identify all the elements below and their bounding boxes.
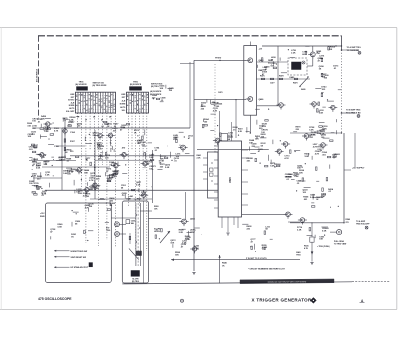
svg-text:100: 100 <box>204 121 208 123</box>
svg-text:P IS SET TO P-VOLTS: P IS SET TO P-VOLTS <box>246 258 267 260</box>
wire y62 stub <box>180 63 194 65</box>
level switch contacts <box>136 214 141 255</box>
output label upper <box>347 46 362 52</box>
level box right labels <box>154 206 161 233</box>
wire y160 stub <box>56 160 76 162</box>
svg-text:.001: .001 <box>31 134 36 136</box>
resistor R483 <box>321 93 323 96</box>
IC U520 block <box>218 141 241 217</box>
svg-text:68: 68 <box>121 187 124 189</box>
svg-text:.001: .001 <box>246 161 251 163</box>
svg-text:4.7K: 4.7K <box>322 128 327 131</box>
border left vertical label <box>36 68 39 82</box>
U520 right network cluster <box>246 136 283 168</box>
svg-text:EXT: EXT <box>122 97 126 99</box>
svg-text:.001: .001 <box>303 199 308 201</box>
wire y106 link <box>257 105 278 107</box>
svg-text:2.2K: 2.2K <box>36 165 41 167</box>
slope comparator Q135 cluster <box>96 153 128 181</box>
title diamond symbol <box>311 298 317 304</box>
push trig note <box>317 246 330 248</box>
switch table S35 side note <box>151 84 162 89</box>
svg-text:5.6K: 5.6K <box>136 184 141 186</box>
U520 bottom pins <box>222 217 238 232</box>
svg-text:10K: 10K <box>154 209 158 211</box>
model note dark strip <box>240 279 334 284</box>
svg-text:15K: 15K <box>270 66 274 68</box>
output flag upper <box>358 51 361 54</box>
svg-text:68: 68 <box>110 205 113 207</box>
svg-text:220: 220 <box>105 158 109 160</box>
resistor R482 <box>321 73 323 76</box>
svg-text:4.7K: 4.7K <box>32 175 37 178</box>
Q505 labels <box>190 219 197 235</box>
svg-text:A+B: A+B <box>71 101 75 104</box>
output stage Q535 <box>298 218 307 225</box>
level box wiper diagonal <box>129 248 139 259</box>
man trig label <box>296 251 301 257</box>
wire x355 vertical <box>354 133 356 167</box>
border top dashed <box>38 35 342 37</box>
relay indicator <box>302 61 305 64</box>
transistor Q470 <box>246 58 253 63</box>
svg-text:100: 100 <box>77 126 81 128</box>
switch table S30 side note <box>93 83 108 88</box>
wire y160 mid <box>95 159 152 161</box>
svg-text:* CIRCUIT NUMBERS SEE PARTS LI: * CIRCUIT NUMBERS SEE PARTS LIST <box>248 267 286 270</box>
svg-text:15K: 15K <box>97 145 101 147</box>
svg-text:(B) SOURCE: (B) SOURCE <box>130 84 142 86</box>
svg-text:.01: .01 <box>174 161 178 163</box>
svg-text:C470: C470 <box>218 91 223 94</box>
wire mid rail x95 <box>94 130 96 199</box>
slope comparator Q130 cluster <box>58 150 96 176</box>
svg-text:TRIG HOLDOFF: TRIG HOLDOFF <box>356 224 370 226</box>
svg-text:3R: 3R <box>93 117 96 119</box>
wire Q480 collector <box>312 46 314 52</box>
pull ring label <box>334 241 347 246</box>
transistor Q460 <box>178 145 187 152</box>
svg-text:10K: 10K <box>262 249 266 251</box>
right mid cluster2 <box>255 109 269 139</box>
transistor Q475 <box>246 97 253 102</box>
svg-text:4.7K: 4.7K <box>85 207 90 210</box>
svg-text:220: 220 <box>296 129 300 131</box>
svg-text:R478: R478 <box>279 75 284 78</box>
output flag holdoff <box>365 226 368 229</box>
svg-text:.001: .001 <box>309 137 314 139</box>
svg-text:10K: 10K <box>304 156 308 158</box>
output bias cluster <box>297 226 329 241</box>
slope switch contact <box>299 76 308 91</box>
switch table S30 header label <box>75 82 87 87</box>
svg-text:A+B: A+B <box>122 99 126 102</box>
svg-text:330: 330 <box>63 120 67 122</box>
TP470 label <box>215 56 223 94</box>
wire trigger bus y190 <box>45 189 218 191</box>
wire aux bus y199 <box>90 198 152 200</box>
svg-text:330: 330 <box>41 157 45 159</box>
trigger preamp Q110 <box>96 133 105 140</box>
svg-text:1K: 1K <box>222 265 225 267</box>
source label lines <box>150 90 162 96</box>
svg-text:10K: 10K <box>41 119 45 121</box>
svg-text:100: 100 <box>169 90 173 92</box>
svg-text:1K: 1K <box>134 133 137 135</box>
input coupling cluster <box>29 172 54 197</box>
relay label <box>290 76 296 79</box>
wire U470 right mid <box>257 61 288 63</box>
bottom border line <box>122 281 390 284</box>
U470 labels <box>259 49 265 102</box>
wire x236 drop <box>235 99 236 138</box>
svg-text:2.2K: 2.2K <box>262 247 267 249</box>
ground under U520 <box>226 233 229 235</box>
svg-text:2.2K: 2.2K <box>297 230 302 232</box>
svg-text:2.2K: 2.2K <box>194 248 199 250</box>
svg-text:100: 100 <box>29 183 33 185</box>
U520 top pin cluster <box>220 127 250 141</box>
right column cluster <box>315 46 341 136</box>
svg-text:15K: 15K <box>84 172 88 174</box>
svg-text:4.7K: 4.7K <box>315 153 320 156</box>
svg-text:1K: 1K <box>107 126 110 128</box>
svg-text:HF STAB ADJ POT: HF STAB ADJ POT <box>71 266 89 269</box>
wire y260 arrowhead <box>171 259 174 261</box>
svg-text:R479: R479 <box>293 82 298 85</box>
svg-text:MAN: MAN <box>296 251 301 254</box>
svg-text:TRIG: TRIG <box>106 230 111 232</box>
source select cluster A <box>152 85 175 102</box>
amplifier block U470 <box>244 46 257 116</box>
+15V arrow label <box>344 168 365 171</box>
svg-text:.01: .01 <box>85 160 89 162</box>
footer reference circle <box>181 299 184 302</box>
level switch actuator box <box>131 271 140 277</box>
svg-text:10K: 10K <box>319 239 323 241</box>
wire right bus vertical solid <box>341 36 343 50</box>
input connector J10 cluster <box>27 115 54 140</box>
wire left bus B <box>29 160 62 162</box>
level actuator label <box>132 278 140 283</box>
page right edge <box>396 28 398 310</box>
transistor Q480 <box>308 52 315 59</box>
coupling network cluster <box>258 57 287 76</box>
svg-text:5.6K: 5.6K <box>309 129 314 131</box>
input chain resistor R106 <box>64 147 66 150</box>
wire to output lower <box>342 112 356 114</box>
svg-text:.01: .01 <box>286 179 290 181</box>
emitter follower Q150 cluster <box>141 146 168 171</box>
svg-text:R476: R476 <box>260 75 265 78</box>
slope amp Q515 <box>302 134 311 141</box>
enclosure box trig mode switch <box>46 203 112 283</box>
narrow block U460 <box>208 152 219 198</box>
svg-text:5.6K: 5.6K <box>322 230 327 232</box>
lower center cluster <box>242 224 273 252</box>
revision mark <box>360 299 365 303</box>
switch S35 row labels <box>120 94 126 112</box>
wire y133 bus <box>290 132 342 133</box>
svg-text:+5V: +5V <box>259 49 263 51</box>
title X TRIGGER GENERATOR <box>251 297 311 302</box>
switch callout arrows <box>54 250 89 269</box>
svg-text:68: 68 <box>228 139 231 141</box>
inner wall line <box>143 201 145 283</box>
svg-text:68: 68 <box>265 229 268 231</box>
svg-text:10K: 10K <box>299 173 303 175</box>
svg-text:NORM: NORM <box>120 104 126 106</box>
svg-text:2.2K: 2.2K <box>179 232 184 234</box>
input chain resistor R105 <box>64 139 66 142</box>
switch table S35 header box <box>130 87 142 91</box>
svg-text:2.2K: 2.2K <box>141 195 146 197</box>
svg-text:4.7K: 4.7K <box>69 118 74 121</box>
svg-text:LEVEL: LEVEL <box>154 231 161 233</box>
svg-text:+ TRIG (PUSH): + TRIG (PUSH) <box>317 246 330 248</box>
wire to output upper <box>342 49 360 51</box>
wire left bus C <box>33 177 62 179</box>
svg-text:TO J-TRACE BD: TO J-TRACE BD <box>346 111 361 114</box>
node top right <box>341 45 342 46</box>
svg-text:.01: .01 <box>37 122 41 124</box>
svg-text:AUTO: AUTO <box>120 106 126 109</box>
svg-text:C477: C477 <box>270 82 275 85</box>
dotted feed x215 <box>214 64 216 152</box>
svg-text:4.7K: 4.7K <box>83 194 88 197</box>
Q460 label stack <box>159 152 190 169</box>
Q505 collector wire <box>185 192 187 219</box>
svg-text:Q486: Q486 <box>259 98 265 101</box>
svg-text:100: 100 <box>324 78 328 80</box>
switch S30 wafer wiring dashed drops <box>78 113 116 248</box>
wire into level box <box>111 211 152 218</box>
asterisk note <box>248 267 286 270</box>
border left dashed <box>38 36 40 118</box>
svg-text:15K: 15K <box>76 192 80 194</box>
svg-text:(A) SOURCE: (A) SOURCE <box>150 90 162 93</box>
svg-text:15K: 15K <box>297 168 301 170</box>
wire coupling bus y167 <box>42 166 110 168</box>
P note <box>246 258 267 260</box>
U470 bottom feed <box>250 115 251 134</box>
svg-text:4.7K: 4.7K <box>311 134 316 137</box>
level amp Q505 <box>179 219 188 226</box>
svg-text:(A) TRIG MODE: (A) TRIG MODE <box>93 84 108 87</box>
svg-text:TP: TP <box>321 93 324 95</box>
svg-text:(B) SOURCE: (B) SOURCE <box>150 94 162 96</box>
svg-text:R107: R107 <box>70 141 76 143</box>
svg-text:68: 68 <box>75 224 78 226</box>
svg-text:4.7K: 4.7K <box>262 125 267 128</box>
svg-text:4.7K: 4.7K <box>89 179 94 182</box>
footer left 475 OSCILLOSCOPE <box>38 297 72 301</box>
wire x190 link <box>189 62 191 128</box>
Q505 base wire <box>149 217 182 219</box>
svg-text:.01: .01 <box>297 183 301 185</box>
svg-text:NORM TRIGD SW: NORM TRIGD SW <box>71 251 88 253</box>
wire comparator output <box>70 155 194 157</box>
svg-text:.01: .01 <box>154 150 158 152</box>
svg-text:2.2K: 2.2K <box>288 176 293 178</box>
svg-text:1K: 1K <box>159 163 162 165</box>
svg-text:EXT: EXT <box>71 97 75 99</box>
under matrix cluster <box>63 117 83 128</box>
svg-text:4.7K: 4.7K <box>304 247 309 250</box>
svg-text:R245: R245 <box>40 215 45 218</box>
svg-text:270: 270 <box>346 222 349 224</box>
svg-text:R255: R255 <box>137 199 141 201</box>
ext trig labels <box>106 228 111 233</box>
svg-text:AUTO: AUTO <box>69 107 75 110</box>
series resistor chain y79 <box>256 75 310 85</box>
wafer contact number labels <box>77 117 112 122</box>
svg-text:220: 220 <box>319 58 323 60</box>
svg-text:X TRIGGER GENERATOR: X TRIGGER GENERATOR <box>251 297 311 302</box>
svg-text:EXT/10: EXT/10 <box>68 100 74 102</box>
svg-text:15K: 15K <box>175 255 179 257</box>
R472 label <box>238 128 243 134</box>
U520 right pins <box>242 150 249 205</box>
svg-text:220: 220 <box>201 109 205 111</box>
mid right cluster A <box>280 126 341 160</box>
U460 internal boxes <box>210 162 214 181</box>
svg-text:220: 220 <box>160 166 164 168</box>
svg-text:330: 330 <box>37 179 41 181</box>
resistor ladder right <box>296 188 339 208</box>
level box top labels <box>126 199 141 201</box>
man trig resistor R536 <box>304 237 314 250</box>
svg-text:4F: 4F <box>101 119 103 122</box>
page top edge <box>0 27 397 29</box>
svg-text:220: 220 <box>247 229 251 231</box>
svg-text:100: 100 <box>216 106 220 108</box>
page left edge <box>0 28 2 310</box>
svg-text:SGL SWP: SGL SWP <box>66 111 75 113</box>
R540 label <box>346 218 351 224</box>
svg-text:15K: 15K <box>170 243 174 245</box>
U520 top notch box <box>221 134 228 142</box>
switch wafer table S35 <box>127 92 149 113</box>
svg-text:TO TRIG VIEW: TO TRIG VIEW <box>334 244 347 246</box>
level pot R500 cluster <box>155 228 202 257</box>
svg-text:C255: C255 <box>126 199 130 201</box>
wire y260 bus <box>171 259 300 261</box>
level switch contact block <box>136 251 142 256</box>
ground at x194 <box>192 273 195 275</box>
svg-text:2F: 2F <box>85 120 87 122</box>
svg-text:10K: 10K <box>28 136 32 138</box>
svg-text:330: 330 <box>96 178 100 180</box>
input attenuator cluster <box>29 144 54 170</box>
svg-text:S480: S480 <box>301 88 305 91</box>
svg-text:.01: .01 <box>328 191 332 193</box>
wire x152 vertical <box>151 150 153 203</box>
svg-text:.001: .001 <box>112 131 117 133</box>
svg-text:5.6K: 5.6K <box>270 166 275 168</box>
svg-text:SWP RESET SW: SWP RESET SW <box>71 257 87 259</box>
feed transistor Q465 <box>213 138 222 145</box>
svg-text:+15V: +15V <box>40 213 45 215</box>
wire y149 bus <box>197 149 269 151</box>
svg-text:4.7K: 4.7K <box>185 238 190 241</box>
level slide switch body <box>136 203 140 266</box>
svg-text:4.7K: 4.7K <box>109 176 114 179</box>
node dot right bus lower <box>341 112 343 114</box>
wire x219 drop <box>219 111 221 141</box>
man trig chain wire <box>311 223 313 237</box>
C250 coupling box <box>126 220 135 225</box>
svg-text:.01: .01 <box>161 100 165 102</box>
ext trig jack J26 <box>115 232 126 237</box>
Q460 bias cluster <box>173 132 193 146</box>
trig mode switch internal cluster <box>50 208 109 241</box>
svg-text:R545: R545 <box>222 262 228 265</box>
svg-text:1K: 1K <box>316 199 319 201</box>
svg-text:475 OSCILLOSCOPE: 475 OSCILLOSCOPE <box>38 297 72 301</box>
svg-text:5.6K: 5.6K <box>165 167 170 169</box>
svg-text:LINE: LINE <box>70 94 75 96</box>
svg-text:2.2K: 2.2K <box>34 185 39 187</box>
enclosure box level switch <box>122 201 148 283</box>
svg-text:5.6K: 5.6K <box>149 157 154 159</box>
svg-text:330: 330 <box>261 137 265 139</box>
svg-text:2.2K: 2.2K <box>197 158 202 160</box>
svg-text:NORM: NORM <box>69 105 75 107</box>
wire left rail x62 <box>61 128 63 190</box>
wire x344 vertical <box>343 133 345 223</box>
switch table S35 header label <box>130 82 142 87</box>
svg-text:R461: R461 <box>197 154 202 157</box>
switch table S30 header box <box>77 87 88 91</box>
svg-text:(B) TRIG: (B) TRIG <box>132 281 140 283</box>
trigger preamp Q115 <box>106 133 115 140</box>
slope amp Q510 <box>281 142 290 149</box>
level box resistor <box>129 233 131 244</box>
svg-text:330: 330 <box>96 188 100 190</box>
mid right cluster B <box>285 163 330 185</box>
wire x278 vertical <box>277 46 279 106</box>
svg-text:470: 470 <box>122 147 126 150</box>
svg-text:100: 100 <box>32 121 36 123</box>
tunnel diode pulse cluster <box>74 172 115 198</box>
svg-text:C104: C104 <box>70 131 76 134</box>
svg-text:5.6K: 5.6K <box>310 197 315 199</box>
input chain wire <box>64 122 65 160</box>
wire y214 bus <box>242 213 286 215</box>
transistor Q490 <box>310 102 319 109</box>
svg-text:.01: .01 <box>333 68 337 70</box>
svg-text:PULL RING: PULL RING <box>334 241 345 243</box>
svg-text:Q505: Q505 <box>190 219 196 221</box>
switch contact marker <box>89 263 93 267</box>
slope amp Q517 <box>319 143 328 150</box>
svg-text:LINE: LINE <box>121 94 126 96</box>
svg-text:TO A SWP: TO A SWP <box>356 220 366 223</box>
U460 left labels <box>197 154 202 160</box>
switch wafer table S30 <box>76 92 116 113</box>
svg-text:5.6K: 5.6K <box>294 176 299 178</box>
svg-text:TO A SWP TRIG: TO A SWP TRIG <box>347 46 362 49</box>
svg-text:.01: .01 <box>122 195 126 197</box>
relay area cluster <box>288 46 310 57</box>
output flag lower <box>357 115 360 118</box>
svg-text:5.6K: 5.6K <box>45 174 50 176</box>
svg-text:(B) TRIG: (B) TRIG <box>151 86 159 88</box>
svg-text:2.2K: 2.2K <box>98 149 103 151</box>
wire main vertical x194 <box>193 60 195 271</box>
svg-text:5.6K: 5.6K <box>36 168 41 170</box>
